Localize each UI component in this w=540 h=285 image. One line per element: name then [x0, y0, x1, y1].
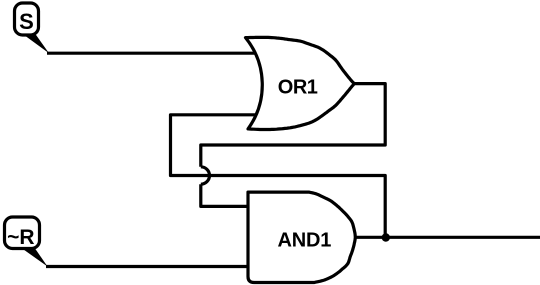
wire net A into AND1 input A: [201, 184, 250, 206]
wire OR1 output to net A corner: [201, 84, 385, 167]
svg-text:~R: ~R: [7, 226, 34, 249]
or-gate OR1: [246, 37, 355, 129]
wire S to OR1 input A: [47, 52, 257, 55]
svg-text:AND1: AND1: [277, 230, 331, 252]
junction dot: [382, 233, 390, 241]
and-gate AND1: [248, 192, 355, 282]
wire junction to right edge (Q output): [386, 236, 540, 239]
svg-text:S: S: [19, 9, 34, 34]
wire AND1 output to junction: [355, 236, 386, 239]
wire feedback from junction up to OR1 input B: [171, 115, 386, 238]
wire ~R to AND1 input B: [46, 265, 250, 268]
svg-text:OR1: OR1: [278, 77, 318, 99]
input flag S: [15, 3, 50, 53]
input flag ~R: [5, 217, 48, 267]
wire hop over feedback wire: [201, 167, 210, 184]
